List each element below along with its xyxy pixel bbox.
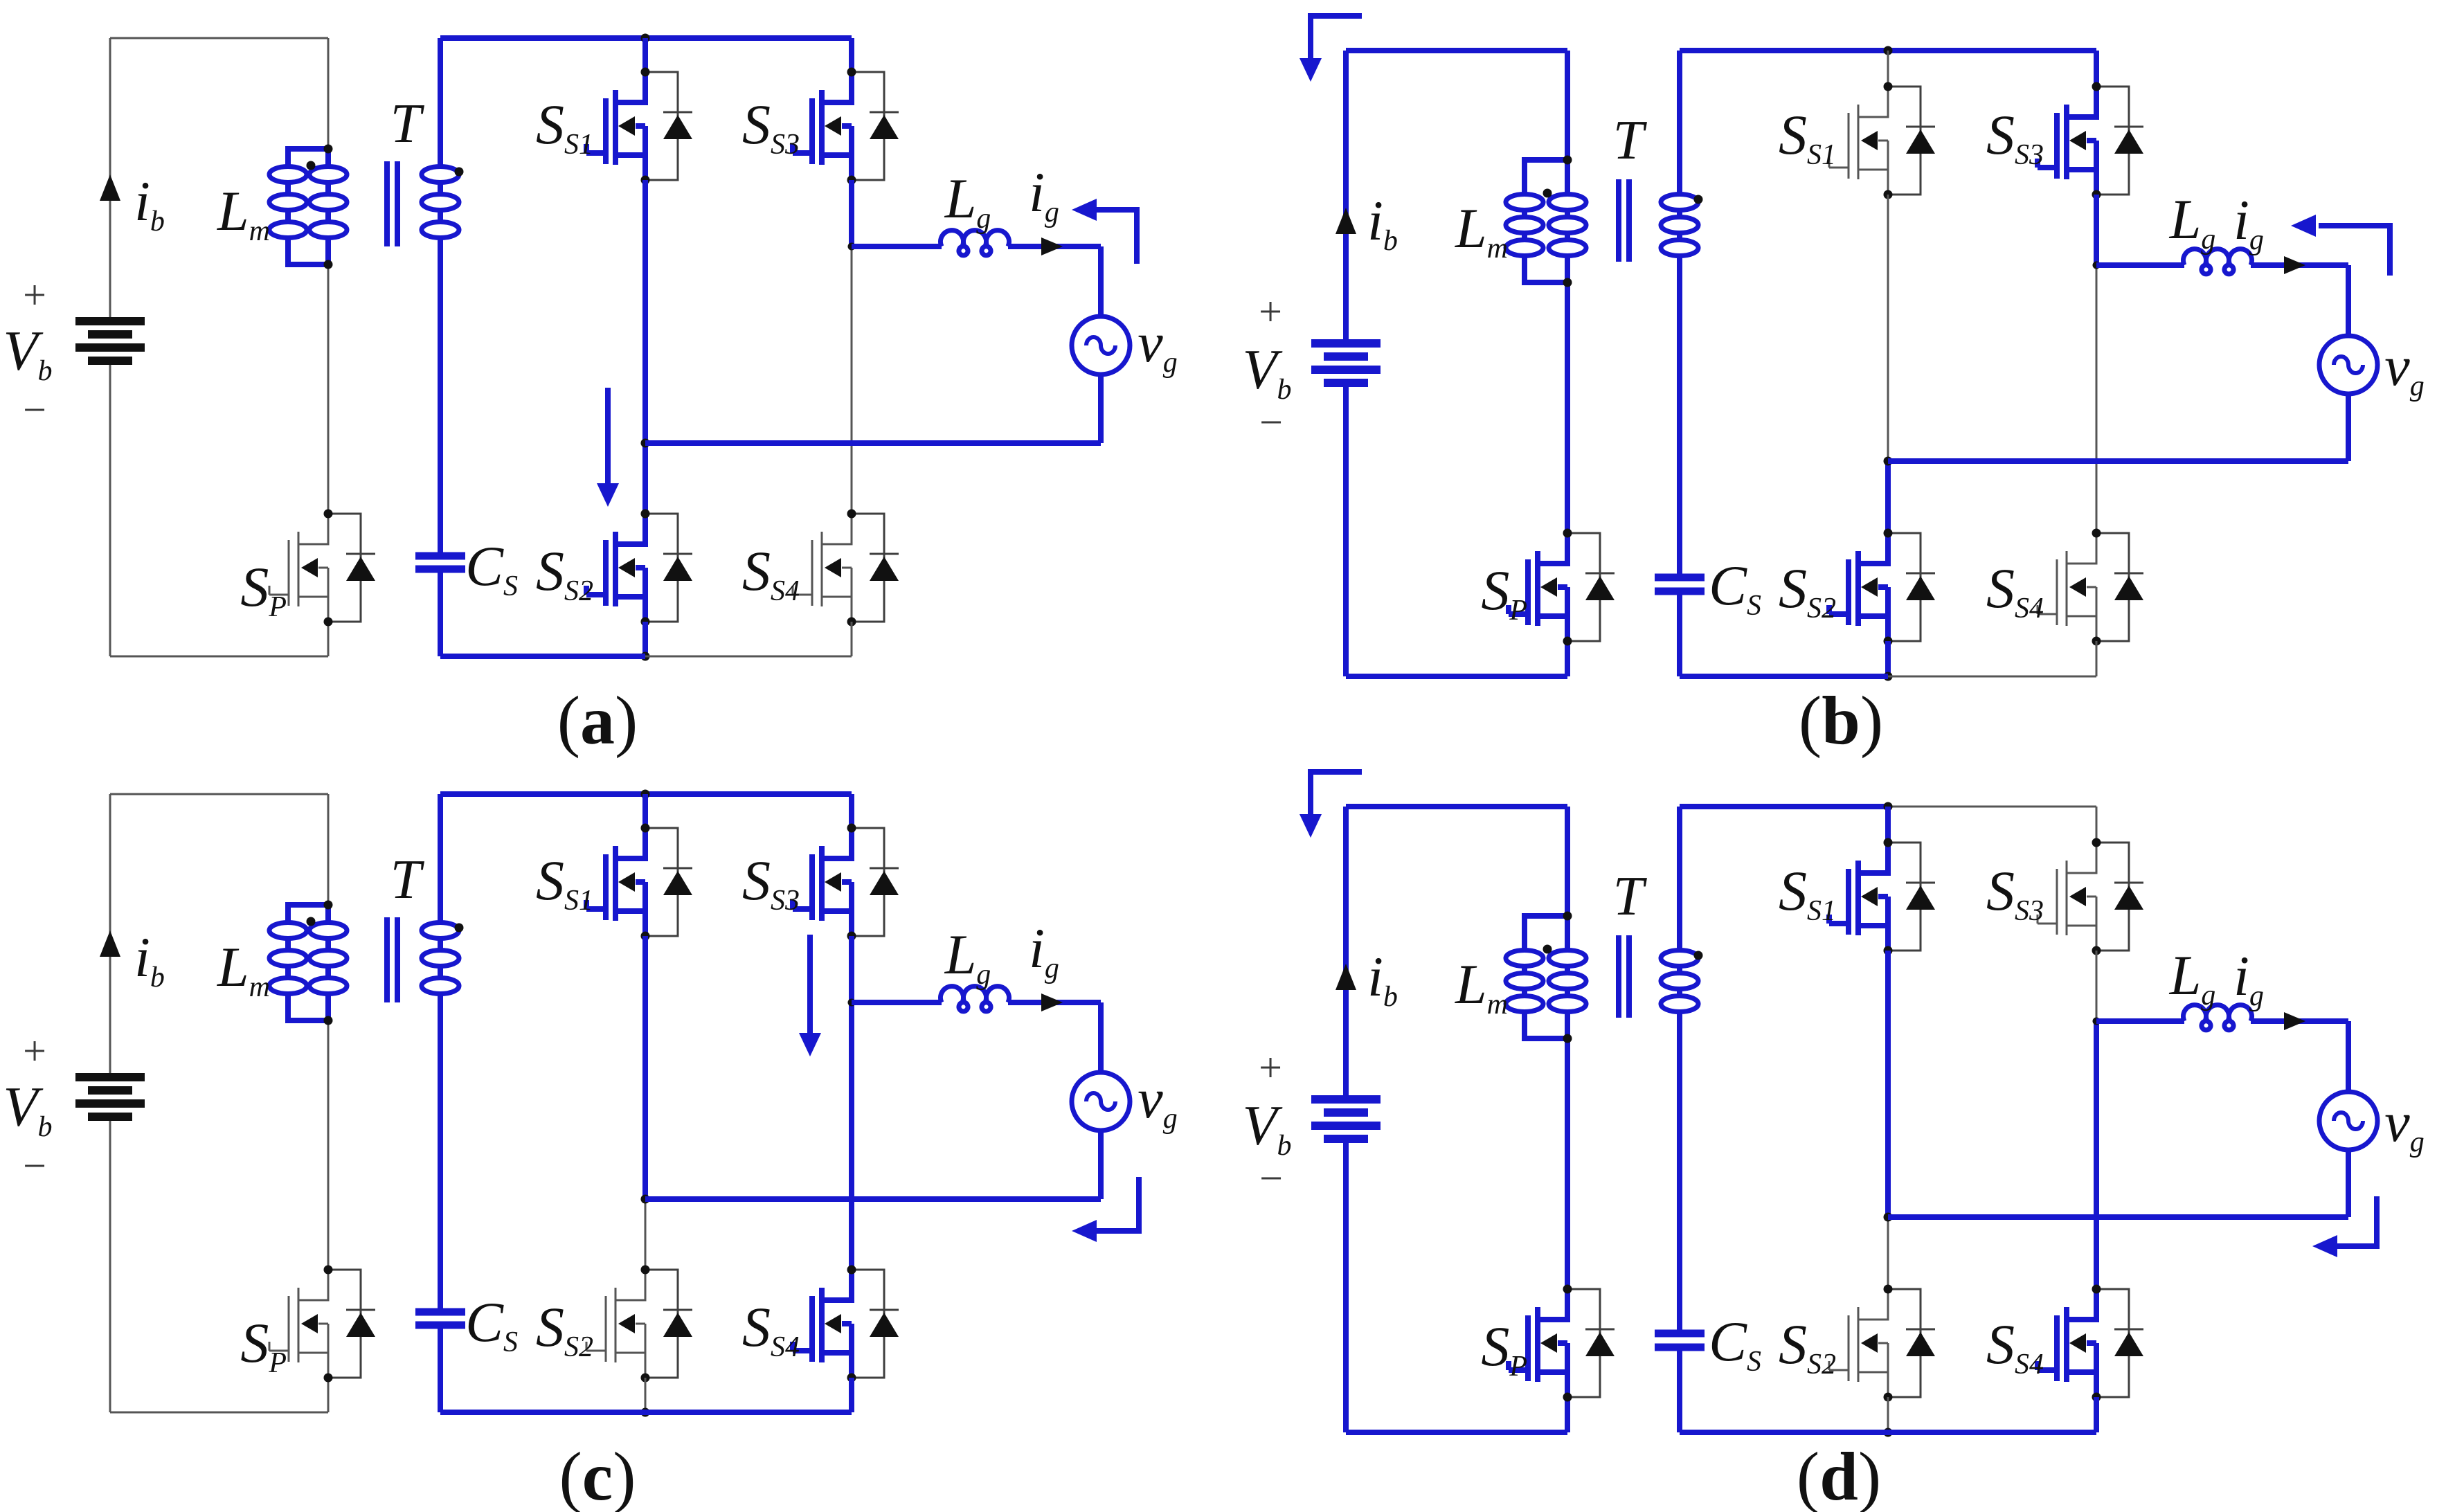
svg-text:T: T	[390, 93, 425, 154]
svg-text:T: T	[1613, 866, 1648, 927]
svg-text:+: +	[23, 1028, 46, 1074]
svg-text:−: −	[23, 387, 46, 433]
svg-text:(a): (a)	[557, 682, 638, 759]
svg-text:T: T	[390, 849, 425, 910]
svg-text:+: +	[1259, 289, 1282, 334]
svg-text:(c): (c)	[559, 1438, 636, 1512]
svg-text:(b): (b)	[1799, 682, 1883, 759]
svg-text:−: −	[1259, 1155, 1283, 1201]
svg-text:+: +	[23, 272, 46, 318]
svg-text:(d): (d)	[1797, 1438, 1881, 1512]
svg-text:T: T	[1613, 110, 1648, 171]
svg-text:−: −	[1259, 399, 1283, 445]
svg-text:−: −	[23, 1143, 46, 1189]
svg-text:+: +	[1259, 1045, 1282, 1090]
